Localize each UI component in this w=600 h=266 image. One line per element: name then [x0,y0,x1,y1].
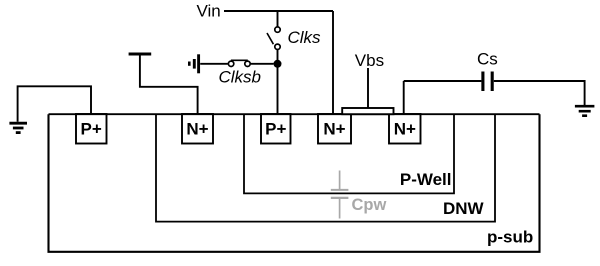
switch Clksb lever [231,59,248,61]
ground symbol left [9,123,27,132]
node junction dot [274,60,282,68]
diffusion P+ box 3 [261,114,291,144]
capacitor Cpw gray stem top [339,171,341,190]
switch Clksb left contact [228,61,233,66]
rotated ground symbol (Clksb rail) [189,54,198,73]
svg-text:Clksb: Clksb [219,68,262,87]
gate plate [342,108,393,114]
svg-text:Clks: Clks [288,28,322,47]
svg-text:P+: P+ [265,119,286,138]
switch Clks lever [267,33,273,44]
capacitor Cs right plate [491,72,494,92]
capacitor Cpw top plate [331,189,349,191]
capacitor Cs left plate [481,72,484,92]
wire Clksb to rail symbol [200,63,228,65]
wire Vin horizontal [224,10,333,12]
switch Clks bottom contact [275,44,280,49]
wire to Cs left plate [404,80,482,82]
wire node to Clksb [251,63,274,65]
svg-text:Cs: Cs [477,50,498,69]
wire N+5 up to Cs [403,81,405,115]
wire Vin down to N+4 [332,11,334,115]
wire Clks to node [277,50,279,60]
svg-text:p-sub: p-sub [487,227,533,246]
diffusion N+ box 4 [318,114,351,144]
wire Cs to right ground [494,81,585,105]
svg-text:Vbs: Vbs [355,51,384,70]
switch Clks top contact [275,27,280,32]
svg-text:N+: N+ [323,119,345,138]
ground symbol right [575,106,595,116]
surface line [49,113,540,115]
svg-text:Cpw: Cpw [352,196,387,214]
wire N+2 to supply bar [140,55,198,114]
wire Vin branch down to switch Clks [277,11,279,26]
svg-text:P-Well: P-Well [400,170,452,189]
svg-text:DNW: DNW [443,199,485,218]
diffusion P+ box 1 [76,114,107,144]
diffusion N+ box 2 [182,114,213,144]
wire node to P+3 [277,66,279,115]
DNW well outline [156,114,495,221]
svg-text:N+: N+ [394,119,416,138]
switch Clksb right contact [245,61,250,66]
svg-text:Vin: Vin [197,2,221,21]
capacitor Cpw gray stem bottom [339,199,341,219]
diffusion N+ box 5 [389,114,421,144]
wire Vbs to gate [367,68,369,109]
P-Well outline [244,114,454,193]
svg-text:P+: P+ [81,119,102,138]
wire P+1 to ground bracket [18,86,91,122]
capacitor Cpw bottom plate [331,197,349,199]
supply bar terminal [129,53,152,56]
svg-text:N+: N+ [186,119,208,138]
p-sub well outline [49,114,540,252]
